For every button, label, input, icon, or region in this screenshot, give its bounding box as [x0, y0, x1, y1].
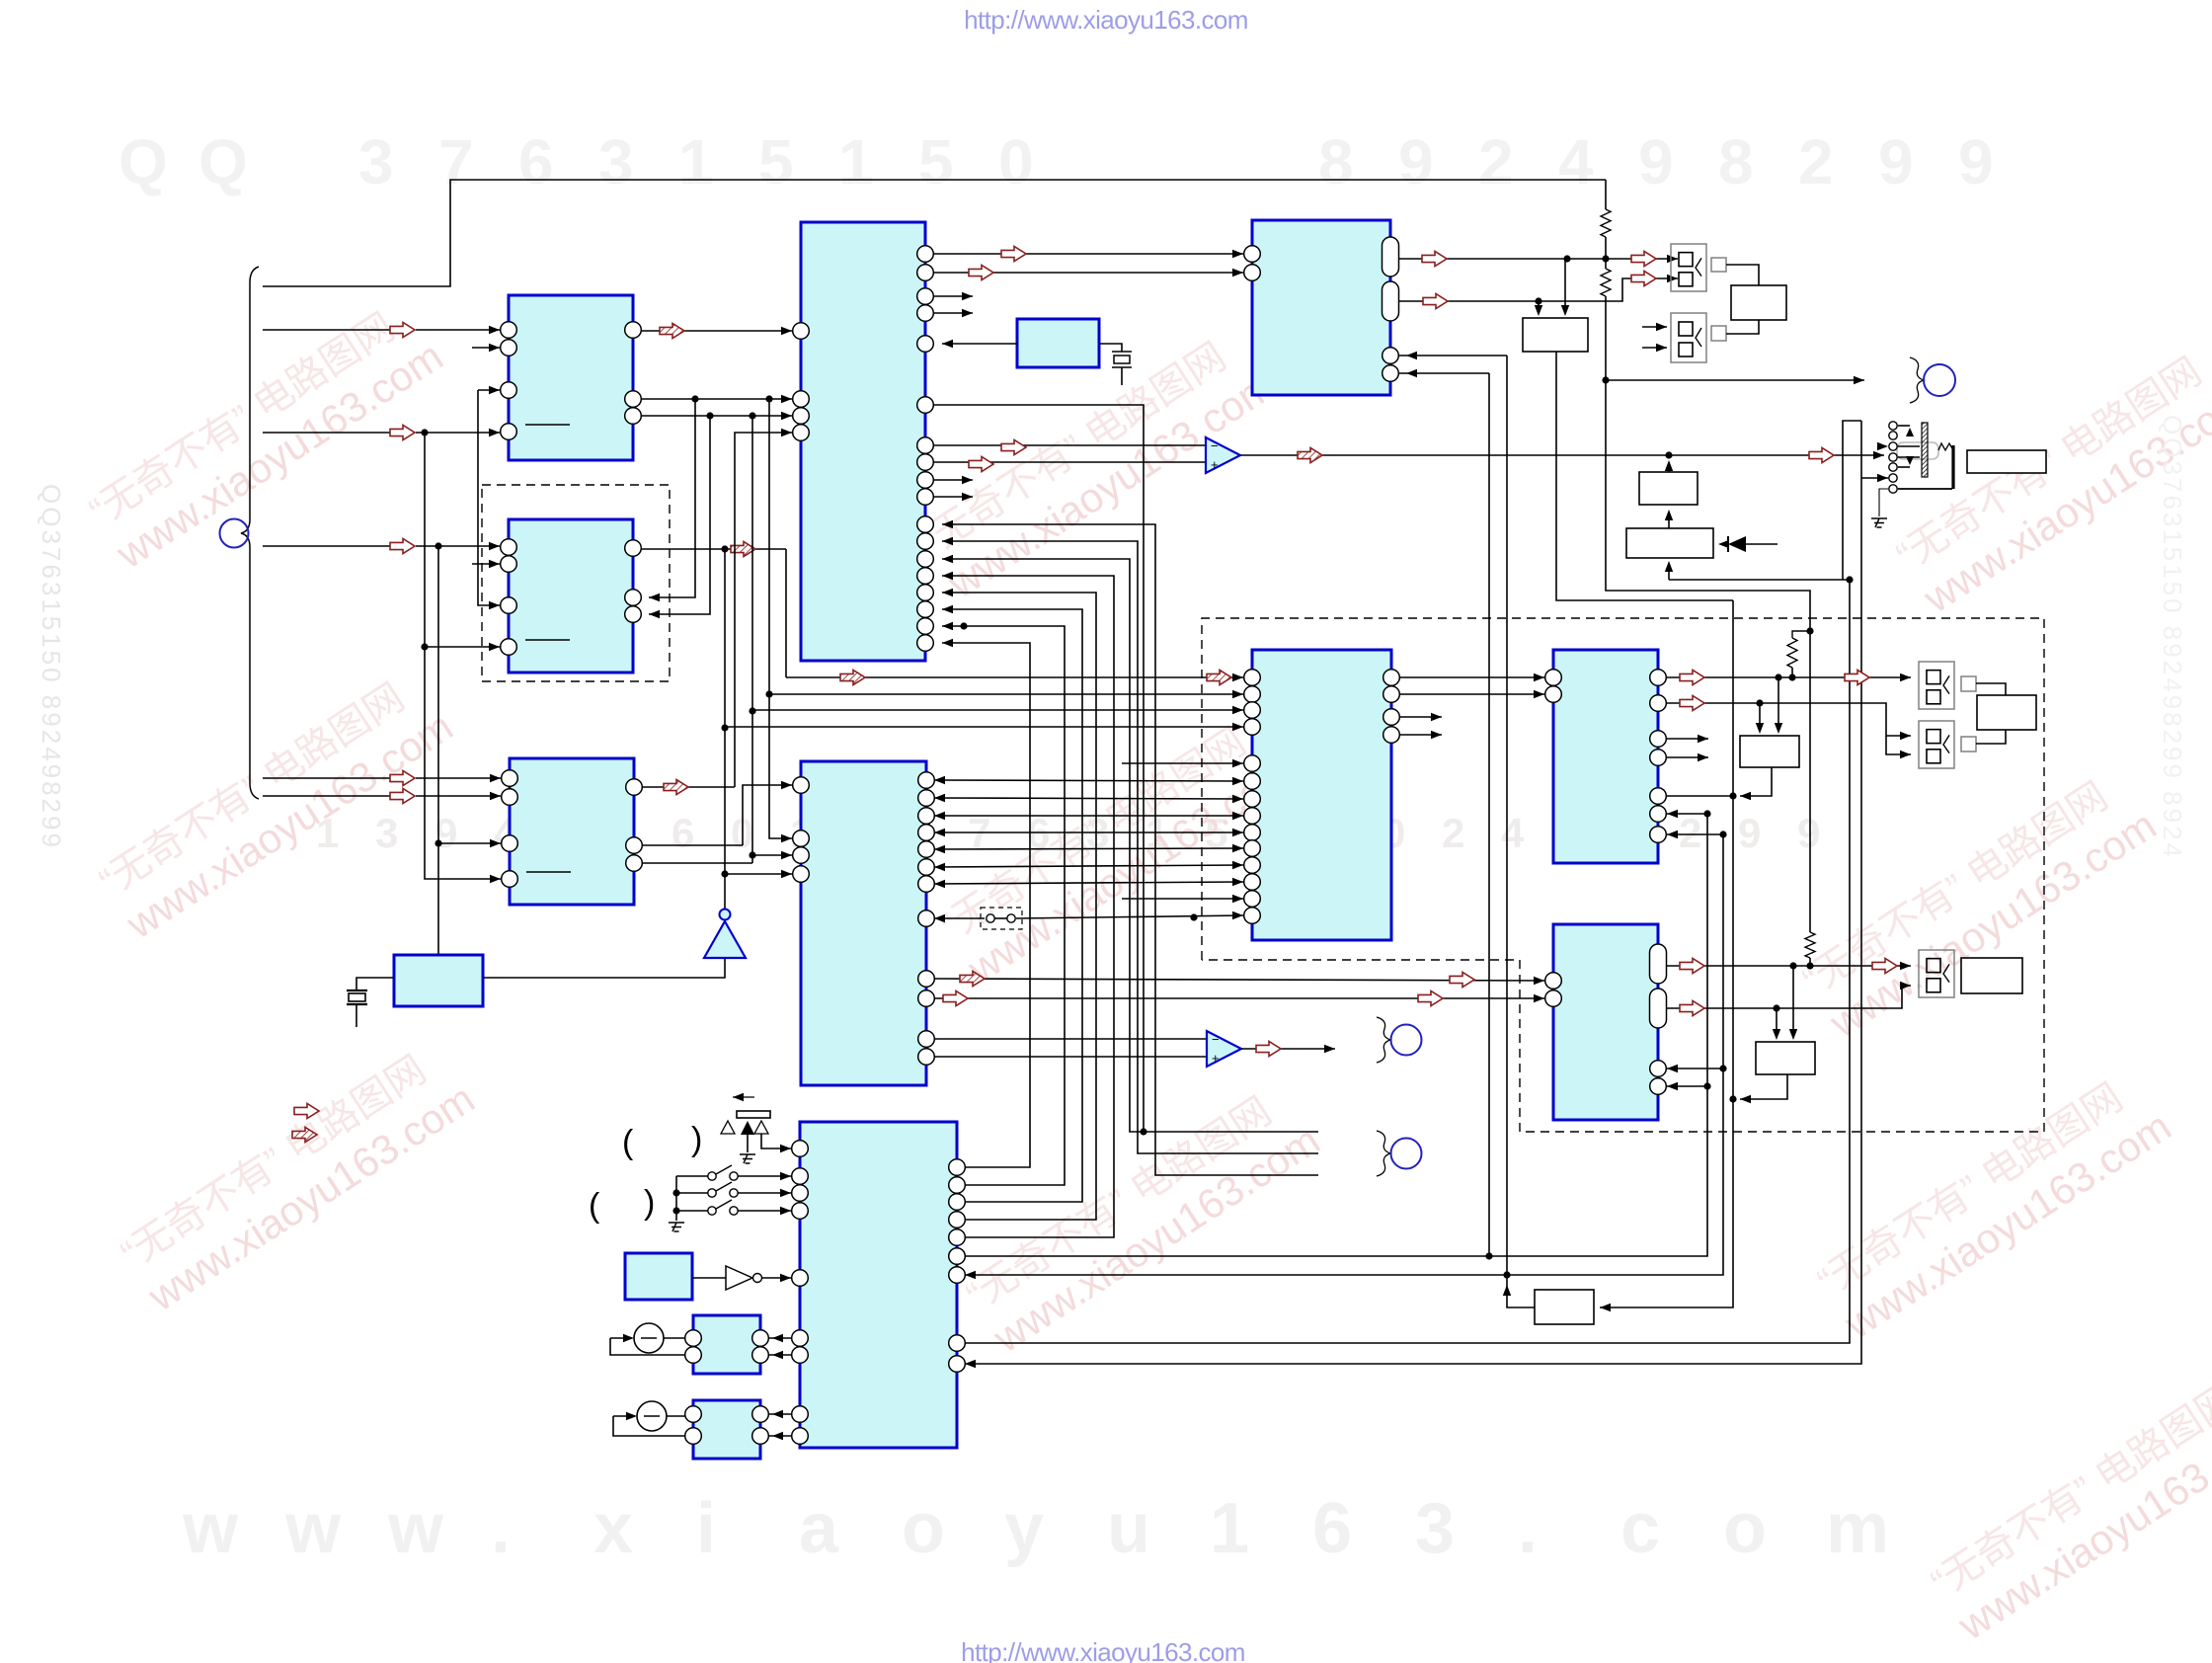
switch row 3 [676, 1210, 708, 1212]
IC block J [1553, 924, 1658, 1120]
IC block N (driver 2) [693, 1400, 760, 1459]
wire top rail from brace [263, 180, 1606, 286]
svg-text:3: 3 [598, 126, 634, 198]
wire I 806 to vertical 1756 [1667, 795, 1734, 797]
pins of block H [1244, 670, 1261, 686]
wire G out 991 to J [934, 979, 1544, 981]
wire opamp2 out to motor M2 [1241, 1048, 1335, 1050]
pins of block F [1244, 246, 1261, 263]
wire v762 link [751, 416, 753, 863]
wire v444 down to osc P [437, 546, 439, 955]
svg-text:http://www.xiaoyu163.com: http://www.xiaoyu163.com [964, 5, 1248, 35]
wiper slot [1897, 442, 1938, 459]
wire v734 down to clock inverter [724, 549, 726, 910]
IC block H (in dashed area) [1252, 650, 1391, 940]
wire v719 loop back to B pin 622 [649, 416, 710, 614]
svg-text:): ) [644, 1184, 655, 1222]
svg-text:1: 1 [1210, 1489, 1249, 1568]
IC block K (bottom mechanism controller) [800, 1122, 957, 1448]
svg-text:http://www.xiaoyu163.com: http://www.xiaoyu163.com [961, 1637, 1245, 1663]
svg-text:y: y [1004, 1489, 1044, 1568]
svg-text:i: i [696, 1489, 716, 1568]
connector CN5 [1919, 950, 1954, 997]
wire v444 branch to C pin 854 [438, 842, 501, 844]
wire input to B pin1 [263, 545, 391, 547]
wire motor M1 feed [1606, 379, 1864, 381]
svg-text:9: 9 [1738, 810, 1761, 856]
svg-text:o: o [1723, 1489, 1767, 1568]
stubs into CN2 [1642, 326, 1667, 328]
wire v430 branch to B pin4 [425, 646, 500, 648]
svg-text:5: 5 [758, 126, 794, 198]
wire D out 410 long loop to motor wire [933, 405, 1318, 1132]
long vertical to W5 [1600, 600, 1733, 1307]
svg-text:6: 6 [671, 810, 694, 856]
svg-text:o: o [902, 1489, 945, 1568]
white box Wb [1756, 1042, 1815, 1074]
wire C out 797 [642, 786, 735, 788]
variable resistor VR2 [637, 1401, 667, 1431]
svg-text:.: . [491, 1489, 511, 1568]
wire input to A pin1 [263, 329, 391, 331]
svg-text:+: + [1212, 1051, 1220, 1066]
wire F bottom pin 378 [1399, 372, 1489, 374]
IC block P (oscillator) [394, 955, 483, 1006]
wire long loop from K pin8 [965, 580, 1850, 1343]
wire I 845 from vertical 1745 [1667, 833, 1723, 835]
svg-text:c: c [1620, 1489, 1660, 1568]
svg-text:1: 1 [838, 126, 874, 198]
pins of block K right [949, 1159, 966, 1176]
wire P out to inverter [483, 958, 725, 978]
stub into B pin2 [472, 563, 500, 565]
bus D-K vertical 1 [942, 524, 1318, 1175]
vertical 1508 down to K wire [1488, 373, 1490, 1256]
wire I 824 from vertical 1729 [1667, 813, 1707, 815]
switch ground [1879, 489, 1888, 516]
switch wiper resistor [1938, 443, 1953, 450]
variable resistor VR1 [634, 1323, 664, 1353]
switch pin7 to bar [1898, 488, 1952, 490]
IC block A (top-left) [509, 295, 633, 460]
IC block C [510, 758, 634, 905]
stub D 486 [933, 479, 973, 481]
connector CN2 [1671, 313, 1706, 362]
legend arrows [294, 1103, 319, 1118]
diode D1 [1722, 543, 1728, 545]
stub I 767 [1667, 756, 1708, 758]
resistor R2 [1605, 259, 1607, 269]
connector circle left [220, 519, 249, 548]
pins of block A [501, 322, 517, 339]
svg-text:QQ376315150 892498299 8924: QQ376315150 892498299 8924 [2158, 415, 2187, 860]
dashed servo region outline [1202, 618, 2044, 1132]
resistor R1 top [1605, 180, 1607, 209]
svg-text:w: w [284, 1489, 342, 1568]
bus D-K vertical 4 [942, 576, 1114, 1237]
wire w6 K pin6 [965, 814, 1707, 1256]
svg-text:a: a [799, 1489, 839, 1568]
svg-text:1: 1 [678, 126, 714, 198]
bus D-K vertical 7 [942, 626, 1065, 1185]
pins of N [685, 1406, 702, 1423]
svg-text:9: 9 [1638, 126, 1674, 198]
signal arrow input A [390, 322, 415, 337]
svg-text:6: 6 [518, 126, 554, 198]
switch row 1 [676, 1175, 708, 1177]
pins of block J [1545, 973, 1562, 990]
svg-text:u: u [1107, 1489, 1150, 1568]
svg-text:m: m [1826, 1489, 1889, 1568]
svg-text:(: ( [622, 1124, 634, 1161]
bus D-K vertical 5 [942, 593, 1096, 1220]
wire C out 856 up to G pin 795 [642, 844, 743, 846]
wire I out 686 to CN3 [1667, 676, 1911, 678]
IC block L (small) [625, 1253, 692, 1300]
rail to resistor network [1606, 380, 1810, 932]
svg-text:9: 9 [1878, 126, 1914, 198]
wire C797 up to D pin 438 [735, 433, 792, 787]
crystal X2 [1112, 351, 1132, 353]
wire J out 1021 [1667, 986, 1911, 1008]
wire F capsule2 out [1399, 278, 1678, 301]
op-amp U2 [1207, 1031, 1241, 1067]
wire band 737 to H [725, 726, 1243, 728]
wire D 451 to opamp1 [933, 444, 1206, 446]
pins of block G [793, 777, 810, 794]
wire B output to inverter vertical [641, 548, 786, 550]
wires N to K [768, 1413, 791, 1415]
svg-text:4: 4 [1501, 810, 1525, 856]
wire D 468 to opamp1 [933, 461, 1206, 463]
svg-text:−: − [1212, 1032, 1220, 1047]
wire into A pin3 [478, 389, 500, 391]
vertical feed to mode switch [1843, 421, 1861, 580]
motor M2 [1377, 1017, 1390, 1063]
wire J 1100 from vertical 1729 [1667, 1085, 1707, 1087]
link CN4 to W1 [1976, 730, 2006, 744]
wire G 1070 to opamp2 [934, 1056, 1207, 1058]
connector CN3 [1919, 662, 1954, 709]
white box W3b [1626, 528, 1713, 558]
stub D 503 [933, 496, 973, 498]
bus D-K vertical 2 [942, 541, 1318, 1153]
white box right of switch [1967, 450, 2046, 473]
svg-text:8: 8 [1718, 126, 1754, 198]
white box W1 [1977, 695, 2036, 730]
svg-text:5: 5 [918, 126, 954, 198]
link CN3 to W1 [1976, 683, 2006, 695]
stub pin6 [1861, 477, 1888, 479]
jumper link [981, 908, 1022, 929]
wire C out 874 [642, 862, 752, 864]
wire E to D 348 [942, 343, 1017, 345]
stub H 726 [1399, 716, 1442, 718]
cassette-in switch [733, 1096, 754, 1098]
wire I out 712 [1667, 703, 1911, 736]
white box W2 (driver) [1523, 318, 1588, 352]
wire input to A pin4 [263, 432, 391, 434]
op-amp U1 [1206, 437, 1240, 473]
signal arrow input C2 [390, 788, 415, 803]
svg-text:4: 4 [1558, 126, 1594, 198]
motor M1 [1910, 357, 1924, 403]
reset line mark in C [526, 871, 571, 873]
IC block E (reset) [1017, 319, 1099, 367]
white box Wa [1740, 736, 1799, 767]
wire v779 link [769, 399, 792, 838]
svg-text:3: 3 [358, 126, 394, 198]
svg-text:2: 2 [1798, 126, 1834, 198]
wire v430 to C pin 890 [425, 433, 501, 879]
Wa bottom to vertical [1740, 767, 1772, 796]
wire into H pin 910 [1122, 898, 1243, 900]
wire F capsule1 out to CN1 [1399, 258, 1678, 260]
dashed box around block B [482, 485, 670, 681]
pins of M [685, 1330, 702, 1347]
svg-text:+: + [1211, 457, 1219, 472]
svg-text:(: ( [589, 1187, 600, 1225]
vertical 1526 down to W5 [1506, 356, 1508, 1294]
signal arrow input A4 [390, 425, 415, 439]
wire v796 down to H bus [785, 549, 787, 677]
wire G out 1011 to J [934, 997, 1544, 999]
svg-text:x: x [593, 1489, 633, 1568]
bus D-K vertical 8 [942, 643, 1030, 1167]
wire J 1082 from vertical 1745 [1667, 1068, 1723, 1069]
link CN2 to W1a [1726, 320, 1759, 334]
wire into H pin 773 [1122, 762, 1243, 764]
svg-text:): ) [691, 1121, 702, 1158]
svg-text:Q: Q [198, 126, 248, 198]
reset line mark in B [525, 639, 570, 641]
link CN1 to W1a [1726, 265, 1759, 285]
wire A out to D in1 [641, 330, 792, 332]
svg-text:9: 9 [1398, 126, 1434, 198]
pins of block I [1545, 670, 1562, 686]
wire H out to I 686 [1399, 676, 1544, 678]
wire band 703 to H [769, 693, 1243, 695]
white box W3a [1639, 472, 1698, 505]
wires M to K [768, 1337, 791, 1339]
wire v704 loop back to B pin 605 [649, 399, 695, 597]
wire F bottom pin 360 [1399, 355, 1507, 356]
svg-text:−: − [1211, 438, 1219, 453]
IC block F (top right) [1252, 220, 1390, 395]
input brace [241, 267, 259, 799]
svg-text:7: 7 [438, 126, 474, 198]
motor M3 [1377, 1131, 1390, 1176]
bus D-K vertical 3 [942, 559, 1144, 1132]
wire H out to I 703 [1399, 693, 1544, 695]
svg-text:2: 2 [1442, 810, 1464, 856]
white box W1a [1731, 285, 1786, 320]
svg-text:9: 9 [1958, 126, 1994, 198]
signal arrow input B1 [390, 538, 415, 553]
wire input to C pin1 [263, 777, 391, 779]
wire J out 976 to CN5 [1667, 965, 1911, 967]
pins of block D right [917, 246, 934, 263]
bus D-K vertical 6 [942, 609, 1082, 1202]
stub I 748 [1667, 738, 1708, 740]
connector CN1 [1671, 244, 1706, 291]
switch feed from 1885 [1877, 442, 1888, 450]
IC block M (driver 1) [693, 1315, 760, 1374]
signal arrow input C1 [390, 770, 415, 785]
wire G 1052 to opamp2 [934, 1038, 1207, 1040]
white box W5 [1535, 1290, 1594, 1324]
resistor R3 pullup [1792, 631, 1810, 638]
svg-text:Q: Q [118, 126, 168, 198]
wire E to crystal [1099, 344, 1122, 352]
stub H 744 [1399, 734, 1442, 736]
connector CN1 ext [1711, 258, 1726, 272]
reset line mark in A [525, 424, 570, 426]
stub D 300 [933, 295, 973, 297]
wire band 686 to H [786, 676, 1243, 678]
svg-text:3: 3 [375, 810, 398, 856]
white box W6 [1961, 958, 2022, 993]
connector CN4 [1919, 721, 1954, 768]
watermark diagonal stamps [81, 291, 2212, 1649]
svg-text:w: w [182, 1489, 239, 1568]
Wb bottom to vertical [1740, 1074, 1787, 1099]
pins of block B [501, 539, 517, 556]
wire v762 branch to G pin 866 [752, 854, 792, 856]
wire opamp1 output long run [1240, 454, 1884, 456]
wire D out 257 to F [933, 253, 1243, 255]
svg-text:w: w [387, 1489, 444, 1568]
pins of block C [502, 770, 518, 787]
svg-text:6: 6 [1312, 1489, 1352, 1568]
wire A out 404 to D with dots [641, 398, 792, 400]
crystal X1 [356, 978, 394, 990]
pins of block D left [793, 323, 810, 340]
clock inverter (triangle up with bubble) [704, 921, 746, 958]
resistor R4 [1805, 932, 1815, 958]
wire D out 276 to F [933, 272, 1243, 274]
wire v734 branch to G pin 885 [725, 873, 792, 875]
bus G to H wires [934, 780, 1243, 781]
W3b bottom feed [1668, 565, 1670, 580]
svg-text:QQ376315150 892498299: QQ376315150 892498299 [37, 484, 66, 850]
svg-text:3: 3 [1415, 1489, 1455, 1568]
stub into A pin2 [472, 347, 500, 349]
wire v484 A3 to B3 [478, 390, 500, 605]
wire W2 bottom run [1556, 352, 1733, 600]
IC block I [1553, 650, 1658, 863]
IC block B [509, 519, 633, 673]
svg-text:2: 2 [1679, 810, 1701, 856]
svg-text:8: 8 [1318, 126, 1354, 198]
IC block D (main processor) [801, 222, 925, 661]
pins of block K left [792, 1141, 809, 1157]
svg-text:9: 9 [1797, 810, 1820, 856]
stub D 317 [933, 312, 973, 314]
wire long loop to K pin9 [965, 421, 1861, 1364]
switch row 2 [676, 1192, 708, 1194]
IC block G (second processor) [801, 761, 926, 1085]
wire A out 421 to D [641, 415, 792, 417]
wire w7 K pin7 [965, 834, 1723, 1275]
svg-text:2: 2 [1478, 126, 1514, 198]
svg-text:0: 0 [998, 126, 1034, 198]
svg-text:.: . [1518, 1489, 1538, 1568]
wire input to C pin2 [263, 795, 391, 797]
wire band 720 to H [752, 709, 1243, 711]
wire L to K via inverter [692, 1277, 726, 1279]
